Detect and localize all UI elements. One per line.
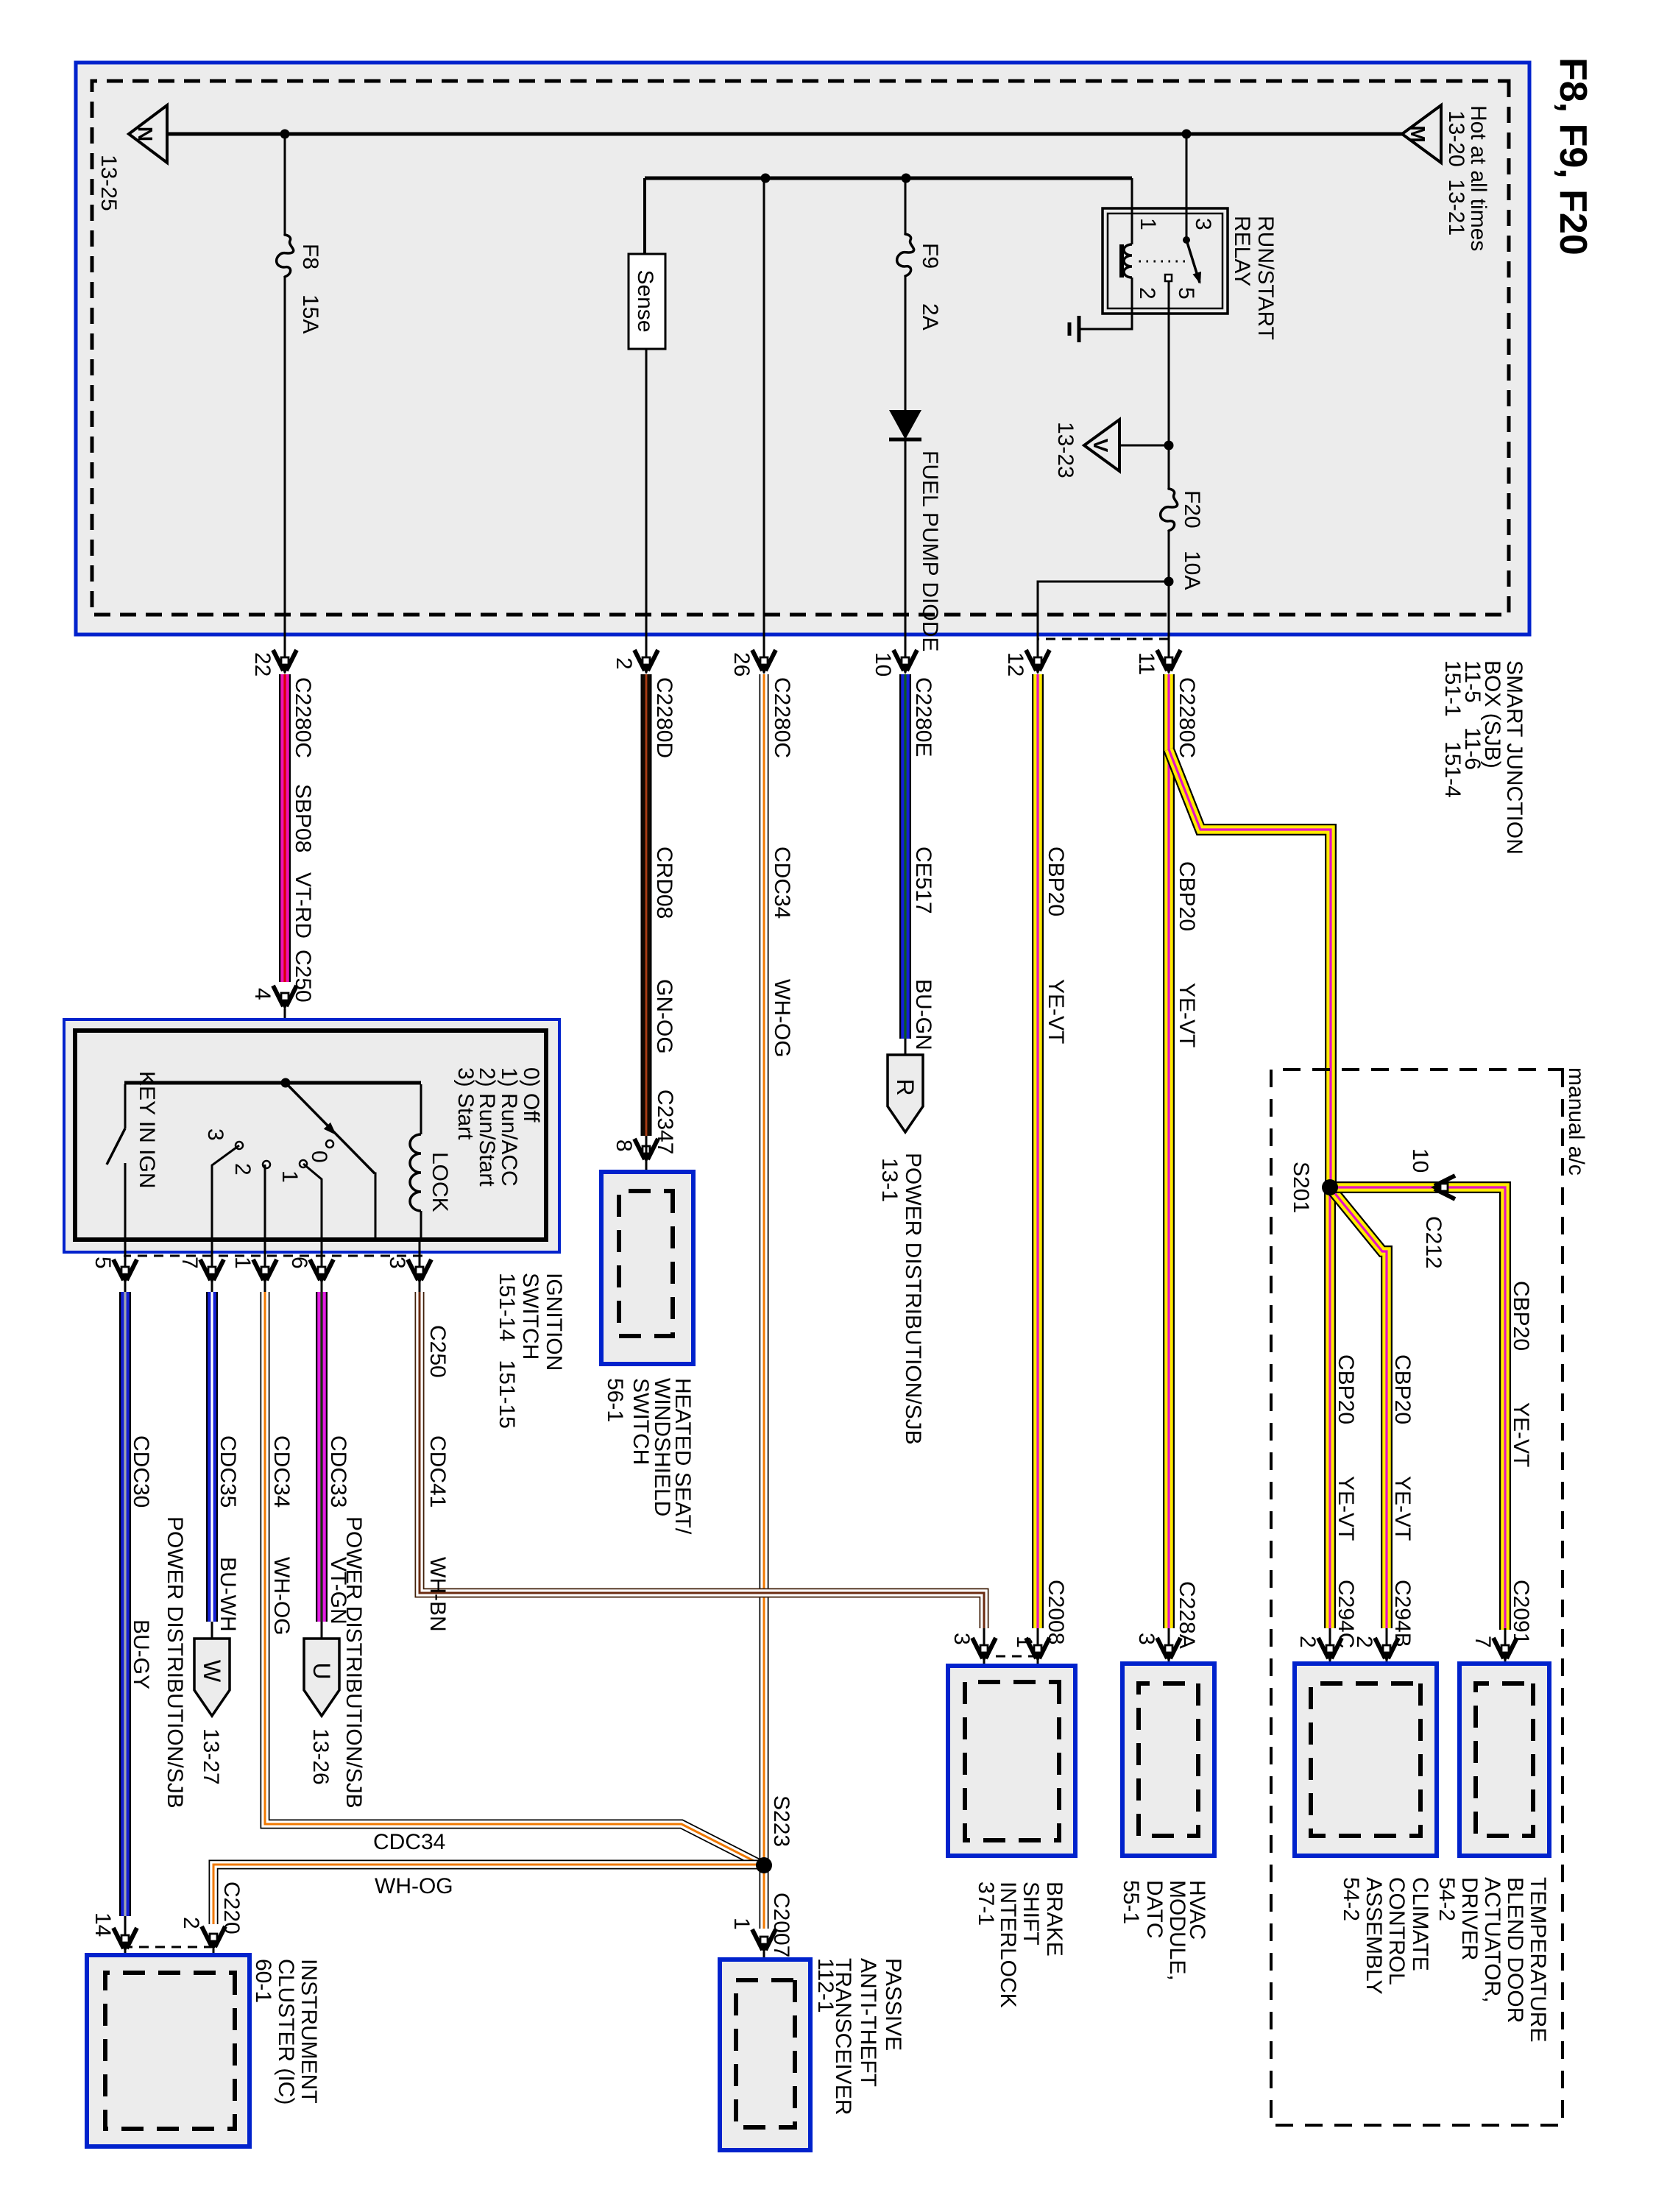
svg-text:WH-OG: WH-OG [770,979,794,1058]
fuel pump diode [889,410,921,439]
svg-text:10: 10 [871,652,895,676]
svg-text:54-2: 54-2 [1339,1877,1363,1921]
key-in-ign wire from bus [124,1084,127,1128]
svg-text:U: U [308,1662,335,1679]
svg-text:CBP20: CBP20 [1175,861,1199,931]
connector C2280C pin 11 arrow [1157,650,1181,674]
svg-text:2A: 2A [918,303,942,331]
relay arm arrowhead [1193,272,1202,284]
fuse F9 [897,234,914,276]
connector C250 dashed group line [124,1255,422,1257]
svg-text:YE-VT: YE-VT [1334,1476,1358,1541]
svg-text:14: 14 [91,1912,115,1937]
power feed triangle V [1084,420,1119,471]
svg-text:10: 10 [1408,1148,1432,1173]
wire CDC41 WH-BN run [420,1292,984,1628]
svg-text:13-1: 13-1 [877,1158,902,1202]
wire bus to LOCK coil [420,1084,422,1134]
svg-text:CONTROL: CONTROL [1384,1877,1409,1985]
svg-text:2: 2 [179,1917,203,1929]
ignition common bus [124,1081,421,1085]
wire stub into box at y366 [1386,1628,1388,1683]
svg-text:C294B: C294B [1390,1580,1415,1647]
power feed triangle M [1402,105,1441,163]
wire stub into box at y205 [1504,1628,1507,1683]
svg-text:CDC35: CDC35 [216,1435,240,1508]
svg-text:3: 3 [1191,218,1215,230]
svg-text:6: 6 [287,1257,311,1269]
svg-text:BU-GN: BU-GN [911,979,935,1050]
wire CDC30 BU-GY run [119,1292,131,1916]
svg-text:FUEL PUMP DIODE: FUEL PUMP DIODE [918,450,942,651]
wire contact 3 to pin 7 [212,1145,239,1240]
passive anti-theft transceiver box [720,1960,810,2150]
svg-text:112-1: 112-1 [813,1958,838,2013]
svg-text:BU-GY: BU-GY [129,1619,153,1689]
svg-text:22: 22 [250,652,275,676]
connector C220 pin 2 arrow [202,1926,225,1951]
svg-text:GN-OG: GN-OG [652,979,676,1054]
svg-text:SMART JUNCTION: SMART JUNCTION [1502,660,1526,855]
svg-text:0: 0 [307,1151,331,1163]
svg-text:2: 2 [612,657,636,670]
ignition blade arrowhead [324,1123,336,1135]
connector C250 pin 3 arrow [408,1259,431,1284]
connector C250 pin 4 arrow [273,986,297,1010]
wire relay pin 5 out [1168,281,1170,489]
connector arrow into box at y443 [1318,1638,1342,1662]
wire CDC35 to W pentagon [211,1622,213,1639]
svg-text:RUN/START: RUN/START [1253,216,1278,340]
svg-text:60-1: 60-1 [251,1959,275,2003]
connector C2280E pin 10 arrow [894,650,917,674]
relay coil [1122,244,1132,278]
svg-text:WH-BN: WH-BN [425,1557,450,1632]
svg-text:C2280D: C2280D [652,677,676,758]
svg-text:KEY IN IGN: KEY IN IGN [135,1071,159,1189]
SJB inner dashed border [92,81,1509,615]
svg-text:C2280C: C2280C [1175,677,1199,758]
relay arm pivot [1183,236,1190,244]
svg-text:11: 11 [1134,652,1158,675]
svg-text:1: 1 [1012,1636,1036,1648]
relay contact square pin 5 [1165,275,1172,281]
connector C220 dashed group line [125,1946,213,1948]
svg-text:manual a/c: manual a/c [1564,1067,1588,1176]
wire into PATS box [763,1952,765,1980]
svg-text:CBP20: CBP20 [1509,1281,1533,1351]
svg-text:F20: F20 [1180,490,1204,529]
splice S223 [756,1857,772,1873]
wire SBP08 VT-RD pin 22 run [279,674,291,982]
svg-text:10A: 10A [1180,551,1204,590]
connector C2280D pin 2 arrow [634,650,658,674]
svg-text:13-25: 13-25 [96,155,121,211]
wire F9 branch start [905,178,907,234]
connector arrow into box at y840 [1026,1638,1050,1662]
svg-text:3: 3 [1134,1633,1158,1645]
wire LOCK coil to pin 3 [420,1211,422,1240]
svg-text:CBP20: CBP20 [1044,847,1068,916]
wire hot bus to fuse F8 [284,134,286,235]
smart junction box (SJB) outline [76,63,1529,635]
svg-text:RELAY: RELAY [1230,216,1254,286]
wire CBP20 YE-VT pin 11 run [1163,674,1175,1628]
ignition contact 3 [236,1142,243,1149]
wire into cluster pin2 [213,1949,215,1973]
svg-text:Hot at all times: Hot at all times [1466,105,1490,251]
wire CDC34 WH-OG pin 26 run to S223 and PATS [760,674,769,1929]
off-page connector W [194,1639,230,1716]
svg-text:15A: 15A [298,294,322,333]
svg-text:56-1: 56-1 [603,1378,627,1422]
wire CBP20 YE-VT branch to S201 [1169,749,1331,1187]
svg-text:CDC30: CDC30 [129,1435,153,1508]
wire CDC33 VT-GN run [316,1292,328,1622]
ignition switch inner box [75,1031,546,1240]
svg-text:1: 1 [1136,218,1160,230]
wire CDC35 BU-WH run [206,1292,218,1622]
wire stub into box at y662 [1168,1628,1170,1683]
svg-text:5: 5 [91,1257,115,1269]
svg-text:CDC34: CDC34 [269,1435,294,1508]
svg-text:WH-OG: WH-OG [269,1557,294,1636]
connector C2280C pin 26 arrow [752,650,776,674]
wire sense bus to Sense box [643,178,646,254]
svg-text:C2007: C2007 [769,1893,793,1957]
svg-text:3: 3 [203,1128,227,1141]
temperature blend door actuator box [1459,1664,1549,1856]
brake shift interlock box [948,1666,1075,1856]
svg-text:SWITCH: SWITCH [518,1273,542,1360]
HVAC module DATC box [1122,1664,1214,1856]
connector C2280C dashed group line [1038,638,1169,640]
svg-text:4: 4 [250,988,275,1000]
svg-text:BLEND DOOR: BLEND DOOR [1503,1877,1527,2023]
off-page connector U [304,1639,339,1716]
svg-text:12: 12 [1003,652,1027,676]
svg-text:3: 3 [949,1633,974,1645]
svg-text:V: V [1089,439,1112,453]
wire CDC34 WH-OG S223 to C220 [213,1865,764,1924]
wire CBP20 YE-VT S201 to C212 and C2091 [1330,1187,1505,1630]
splice S201 [1322,1179,1338,1195]
wire junction to V triangle [1119,445,1169,447]
wire stub into box at y913 [983,1628,986,1682]
svg-text:INTERLOCK: INTERLOCK [996,1881,1020,2008]
fuse F8 [277,235,294,277]
connector arrow into box at y662 [1157,1638,1181,1662]
svg-text:3: 3 [385,1257,409,1269]
svg-text:BRAKE: BRAKE [1042,1881,1066,1957]
svg-text:F8: F8 [298,244,322,269]
manual a/c dashed boundary [1271,1070,1563,2125]
svg-text:5: 5 [1174,287,1198,300]
svg-text:DRIVER: DRIVER [1457,1877,1482,1960]
svg-text:CBP20: CBP20 [1390,1354,1415,1424]
svg-text:YE-VT: YE-VT [1509,1402,1533,1467]
svg-text:0) Off: 0) Off [519,1067,543,1123]
wire CDC33 to U pentagon [321,1622,323,1639]
svg-text:YE-VT: YE-VT [1175,983,1199,1047]
wire stub into box at y840 [1037,1628,1039,1682]
junction on hot bus to relay pin 3 [1182,130,1192,139]
svg-text:2: 2 [1352,1636,1376,1648]
heated seat/windshield switch box [601,1172,693,1364]
svg-text:SWITCH: SWITCH [629,1378,653,1465]
connector C2347 pin 8 arrow [634,1139,658,1163]
svg-text:ASSEMBLY: ASSEMBLY [1362,1877,1386,1995]
svg-text:2: 2 [1135,287,1159,300]
wire branch to pin 12 [1038,582,1169,673]
connector C2007 pin 1 arrow [752,1929,776,1954]
connector C2280C pin 12 arrow [1026,650,1050,674]
wire relay coil to ground [1080,278,1132,329]
wire F9 to diode [905,276,907,410]
run/start relay box [1103,208,1228,314]
relay switch arm [1186,240,1200,283]
ignition contact 1 [300,1160,307,1167]
wire CBP20 YE-VT S201 to C294C [1324,1187,1336,1628]
wire BU-GN to R pentagon [905,1039,907,1055]
svg-text:26: 26 [729,652,754,676]
wire ignition pin 7 exit [211,1240,213,1292]
wire ignition pin 3 exit [419,1240,421,1292]
ignition rotary blade [286,1083,375,1173]
connector C2008 dashed group line [984,1656,1038,1658]
ground symbol [1069,316,1079,342]
ignition contact 2 [263,1161,270,1168]
svg-text:13-26: 13-26 [308,1728,333,1785]
junction ignition common [281,1078,291,1088]
svg-text:YE-VT: YE-VT [1044,979,1068,1044]
wire hot-at-all-times bus [167,132,1402,136]
svg-text:ACTUATOR,: ACTUATOR, [1480,1877,1504,2003]
svg-text:55-1: 55-1 [1119,1880,1143,1924]
wire CBP20 YE-VT pin 12 run [1032,674,1044,1628]
junction sense bus to F9 [902,174,911,183]
wire CDC34 WH-OG run to S223 [265,1292,762,1865]
wire CBP20 YE-VT S201 to C294B [1330,1187,1387,1628]
svg-text:C2280C: C2280C [291,677,315,758]
wire contact 1 to pin 6 [303,1164,322,1240]
svg-text:C2008: C2008 [1044,1580,1068,1644]
svg-text:LOCK: LOCK [428,1152,452,1212]
connector arrow into box at y205 [1493,1638,1517,1662]
wire sense bus [645,177,1132,180]
connector C212 pin 10 arrow [1431,1176,1455,1199]
wire C250 pin4 into ignition switch [284,1008,286,1083]
svg-text:MODULE,: MODULE, [1165,1880,1189,1981]
svg-text:2: 2 [230,1163,255,1176]
junction on hot bus to fuse F8 [280,130,290,139]
svg-text:SHIFT: SHIFT [1019,1881,1043,1946]
svg-text:YE-VT: YE-VT [1390,1476,1415,1541]
wire arrow to heated seat switch [645,1136,648,1191]
svg-text:N: N [134,127,157,141]
svg-text:37-1: 37-1 [974,1881,998,1926]
svg-text:CBP20: CBP20 [1334,1354,1358,1424]
wire contact 2 to pin 1 [264,1165,266,1240]
ignition switch box [64,1020,559,1252]
connector C2280C pin 22 arrow [273,650,297,674]
ignition blade end stub [375,1173,375,1240]
svg-text:M: M [1406,125,1429,142]
svg-text:C250: C250 [425,1325,450,1378]
wire sense bus to pin 26 exit [763,178,765,673]
svg-text:POWER DISTRIBUTION/SJB: POWER DISTRIBUTION/SJB [342,1516,366,1809]
svg-text:F8, F9, F20: F8, F9, F20 [1551,57,1594,255]
wire diode to SJB edge [905,441,907,673]
svg-text:CLUSTER (IC): CLUSTER (IC) [274,1959,298,2105]
wire hot bus to relay pin 3 [1186,134,1188,240]
svg-text:R: R [892,1078,919,1095]
connector arrow into box at y913 [972,1638,996,1662]
svg-text:C2280C: C2280C [770,677,794,758]
off-page connector R [888,1055,923,1132]
svg-text:1: 1 [230,1257,255,1269]
ignition contact 0 [326,1140,333,1148]
svg-text:POWER DISTRIBUTION/SJB: POWER DISTRIBUTION/SJB [163,1516,187,1809]
svg-text:W: W [199,1660,225,1683]
Sense box [629,254,665,349]
wire into cluster pin14 [124,1951,127,1973]
svg-text:TEMPERATURE: TEMPERATURE [1526,1877,1550,2042]
connector C250 pin 1 arrow [253,1259,277,1284]
LOCK coil [410,1134,421,1211]
svg-text:IGNITION: IGNITION [542,1273,566,1371]
key-in-ign switch blade [107,1128,125,1165]
svg-text:F9: F9 [918,243,942,269]
svg-text:13-23: 13-23 [1053,422,1078,478]
wire stub into box at y443 [1329,1628,1331,1683]
connector C250 pin 7 arrow [200,1259,224,1284]
svg-text:7: 7 [1471,1636,1495,1648]
svg-text:VT-RD: VT-RD [291,872,315,939]
junction pin5 wire to V triangle [1164,441,1174,450]
svg-text:S201: S201 [1289,1162,1313,1213]
svg-text:PASSIVE: PASSIVE [881,1958,905,2051]
wire ignition pin 5 exit [124,1240,127,1292]
svg-text:ANTI-THEFT: ANTI-THEFT [856,1958,880,2087]
fuse F20 [1161,489,1178,531]
climate control assembly box [1295,1664,1437,1856]
svg-text:POWER DISTRIBUTION/SJB: POWER DISTRIBUTION/SJB [901,1153,925,1445]
wire F20 to SJB edge [1168,531,1170,673]
svg-text:54-2: 54-2 [1434,1877,1459,1921]
svg-text:1) Run/ACC: 1) Run/ACC [497,1067,521,1187]
key-in-ign wire to pin 5 [124,1163,127,1240]
svg-text:CDC34: CDC34 [770,847,794,919]
wire F8 to SJB edge [284,277,286,673]
junction sense bus to pin 26 [761,174,771,183]
svg-text:DATC: DATC [1142,1880,1167,1938]
svg-text:C2280E: C2280E [911,677,935,757]
svg-text:151-1 151-4: 151-1 151-4 [1440,660,1465,798]
svg-text:1: 1 [729,1918,754,1930]
svg-text:13-27: 13-27 [199,1728,223,1785]
svg-text:Sense: Sense [633,269,657,332]
svg-text:151-14 151-15: 151-14 151-15 [495,1273,519,1429]
svg-text:8: 8 [612,1139,636,1152]
svg-text:13-20 13-21: 13-20 13-21 [1444,110,1468,236]
connector arrow into box at y366 [1375,1638,1398,1662]
svg-text:CDC34: CDC34 [373,1830,445,1854]
svg-text:S223: S223 [769,1795,793,1847]
wire CRD08 GN-OG sense run [641,674,652,1136]
svg-text:BU-WH: BU-WH [216,1557,240,1632]
svg-text:3) Start: 3) Start [453,1067,478,1140]
svg-text:SBP08: SBP08 [291,784,315,852]
svg-text:CRD08: CRD08 [652,847,676,919]
connector C220 pin 14 arrow [113,1928,137,1952]
wire CDC30 to cluster [124,1916,127,1951]
svg-text:C212: C212 [1421,1216,1446,1269]
wire ignition pin 6 exit [321,1240,323,1292]
wire ignition pin 1 exit [264,1240,266,1292]
wire sense bus to relay coil [1131,178,1133,244]
svg-text:C2091: C2091 [1509,1580,1533,1644]
svg-text:CDC33: CDC33 [326,1435,350,1508]
svg-text:CLIMATE: CLIMATE [1408,1877,1432,1971]
svg-text:WH-OG: WH-OG [375,1874,453,1898]
svg-text:7: 7 [177,1257,202,1269]
connector C250 pin 6 arrow [310,1259,333,1284]
connector C250 pin 5 arrow [113,1259,137,1284]
svg-text:1: 1 [277,1170,302,1183]
junction F20 wire to pin 12 branch [1164,577,1174,587]
svg-text:2: 2 [1295,1636,1320,1648]
relay coil-arm dotted link [1138,261,1185,263]
svg-text:CDC41: CDC41 [425,1435,450,1508]
svg-text:CE517: CE517 [911,847,935,914]
instrument cluster box [87,1955,250,2146]
svg-text:INSTRUMENT: INSTRUMENT [297,1959,321,2104]
wire Sense box to SJB edge [645,349,648,673]
wire CE517 BU-GN fuel pump run [899,674,911,1039]
power feed triangle N [129,105,167,163]
